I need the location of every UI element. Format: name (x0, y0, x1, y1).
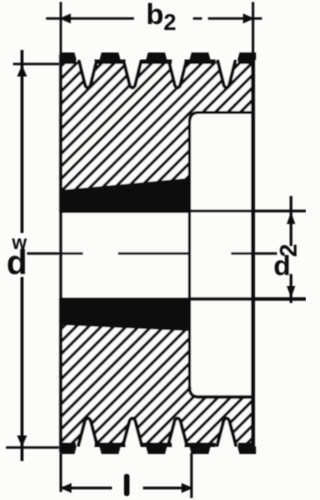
dimension d2: extension lines (190, 210, 307, 213)
dimension dw: top arrowhead (17, 65, 27, 77)
dimension d2: top arrowhead (287, 212, 296, 224)
bottom V-groove 3 (168, 418, 187, 445)
dimension b2: right arrowhead (243, 14, 255, 24)
right hub face outline (251, 56, 255, 451)
recess top edge (190, 113, 254, 122)
dimension b2: dimension line (46, 17, 134, 20)
dimension b2: extension lines (60, 2, 62, 56)
bottom groove land 1 (61, 443, 77, 448)
dimension l: left arrowhead (60, 483, 72, 493)
bottom groove land 2 (95, 443, 126, 448)
dimension b2: left arrowhead (59, 14, 71, 24)
bottom V-groove 1 (79, 418, 98, 445)
dimension dw: bottom arrowhead (17, 436, 27, 448)
top V-groove 3 (169, 62, 186, 88)
dimension l: dimension line (60, 487, 112, 490)
dimension d2: dimension line (290, 196, 293, 246)
center line (27, 252, 83, 254)
bottom groove land 5 (238, 443, 254, 448)
bore (59, 213, 190, 298)
upper bushing wedge (61, 178, 190, 213)
top groove land 2 (95, 60, 126, 65)
bottom V-groove 2 (123, 418, 142, 445)
svg-text:b: b (146, 0, 164, 31)
svg-text:2: 2 (164, 9, 177, 35)
pulley body hatching (61, 62, 253, 445)
dimension dw: extension lines (13, 63, 59, 65)
dimension l: extension lines (59, 453, 62, 492)
dimension l: right arrowhead (182, 483, 194, 493)
bottom groove land 4 (185, 443, 216, 448)
recess bottom edge (190, 388, 254, 397)
bottom V-groove 4 (217, 418, 236, 445)
left face outline (59, 56, 62, 451)
top groove land 4 (185, 60, 216, 65)
top groove land 3 (141, 60, 172, 65)
hub recess (bushing counterbore) (190, 113, 256, 398)
svg-text:w: w (11, 233, 27, 254)
svg-text:2: 2 (276, 244, 303, 257)
dimension l: label (124, 474, 130, 496)
top groove land 5 (238, 60, 254, 65)
top groove land 1 (61, 60, 77, 65)
dimension dw: dimension line (21, 50, 24, 233)
recess shoulder line (188, 122, 191, 389)
top V-groove 2 (124, 62, 141, 88)
bottom groove land 3 (141, 443, 172, 448)
lower bushing wedge (61, 298, 190, 332)
top V-groove 4 (218, 62, 235, 88)
top V-groove 1 (79, 62, 96, 88)
dimension d2: bottom arrowhead (287, 286, 296, 298)
